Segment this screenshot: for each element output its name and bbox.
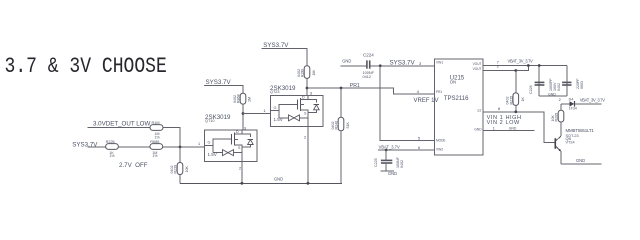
resistor R226 <box>106 140 119 158</box>
svg-text:3: 3 <box>419 62 421 66</box>
svg-text:VIN2: VIN2 <box>436 147 443 151</box>
svg-text:3.7 & 3V CHOOSE: 3.7 & 3V CHOOSE <box>5 55 167 80</box>
capacitor bank box <box>539 66 567 97</box>
svg-text:1M: 1M <box>312 71 316 76</box>
transistor Q VT24 MMBT5551LT1 <box>555 128 594 164</box>
svg-text:6: 6 <box>418 146 420 150</box>
junction drain node <box>242 112 245 115</box>
svg-text:0412: 0412 <box>363 75 371 79</box>
wire block2 source to gnd <box>307 127 309 184</box>
svg-text:MODE: MODE <box>436 139 446 143</box>
svg-text:R239: R239 <box>174 165 178 174</box>
svg-text:4: 4 <box>417 90 419 94</box>
svg-text:VBAT_3V_3.7V: VBAT_3V_3.7V <box>580 98 606 103</box>
transistor Q 2SK3019 QT23 (block2) <box>271 95 324 126</box>
svg-text:2: 2 <box>239 166 241 170</box>
svg-text:GND: GND <box>274 176 283 181</box>
ground (C225) <box>381 170 395 172</box>
svg-text:8: 8 <box>498 107 500 111</box>
svg-text:1%: 1% <box>152 154 158 158</box>
wire GND pin <box>483 130 535 132</box>
resistor R239 pulldown <box>170 147 189 183</box>
svg-text:VBAT_3.7V: VBAT_3.7V <box>379 145 400 150</box>
IC U215 TPS2116 <box>435 59 483 155</box>
svg-text:2: 2 <box>497 64 499 68</box>
junction <box>527 64 530 67</box>
wire <box>87 146 105 148</box>
svg-text:C226: C226 <box>529 85 533 94</box>
svg-text:1F34: 1F34 <box>569 107 577 111</box>
svg-text:1: 1 <box>493 126 495 130</box>
svg-text:GND: GND <box>509 126 517 130</box>
svg-text:0603: 0603 <box>580 81 584 89</box>
svg-text:R2M: R2M <box>301 69 305 77</box>
wire VOUT pin2 <box>483 66 528 71</box>
svg-text:1%: 1% <box>109 154 115 158</box>
svg-text:0402: 0402 <box>557 83 561 91</box>
wire ST net <box>483 112 555 143</box>
wire emitter to gnd <box>561 163 602 165</box>
svg-text:C224: C224 <box>363 52 374 57</box>
svg-text:0402: 0402 <box>400 160 404 168</box>
svg-text:D: D <box>236 130 239 134</box>
resistor R215 (vertical) <box>506 71 525 112</box>
svg-text:2.7V OFF: 2.7V OFF <box>119 162 148 169</box>
wire <box>561 103 570 105</box>
svg-text:2: 2 <box>304 136 306 140</box>
capacitor C226 <box>529 82 544 94</box>
junction R246 tap <box>340 87 343 90</box>
svg-text:1%: 1% <box>155 135 161 139</box>
wire <box>163 146 205 148</box>
wire SYS3.7V to VIN1 <box>370 65 435 67</box>
wire <box>306 78 308 95</box>
svg-text:R215: R215 <box>509 96 513 105</box>
wire <box>575 103 602 105</box>
wire VIN2 <box>378 149 435 151</box>
svg-text:R686: R686 <box>150 140 159 144</box>
svg-text:51K: 51K <box>346 122 350 129</box>
svg-text:0402: 0402 <box>170 166 174 174</box>
svg-text:R246: R246 <box>335 121 339 130</box>
svg-text:GND: GND <box>474 128 482 132</box>
svg-text:VOUT: VOUT <box>473 67 482 71</box>
capacitor C224 <box>363 52 375 79</box>
diode D4 1F34 <box>569 98 577 111</box>
internal gate network <box>205 139 232 145</box>
wire <box>163 127 180 147</box>
wire to block2 gate <box>243 113 270 115</box>
resistor R868 (vertical) <box>233 93 252 104</box>
svg-text:PR1: PR1 <box>350 83 360 89</box>
resistor R2M pullup (vertical) <box>297 66 316 79</box>
svg-text:ON: ON <box>450 79 456 84</box>
resistor R1M <box>150 121 163 139</box>
svg-text:VIN 2 LOW: VIN 2 LOW <box>487 120 520 126</box>
svg-text:1: 1 <box>264 109 266 113</box>
resistor R686 <box>150 140 163 158</box>
svg-text:0402: 0402 <box>331 122 335 130</box>
mosfet channel bar <box>233 133 235 146</box>
capacitor C229 <box>549 78 584 91</box>
junction <box>538 64 541 67</box>
svg-text:C225: C225 <box>374 158 378 167</box>
drain stub <box>234 130 242 134</box>
svg-text:R205: R205 <box>555 113 559 122</box>
capacitor C225 <box>374 150 404 171</box>
svg-text:0402: 0402 <box>506 97 510 105</box>
svg-text:ST: ST <box>477 109 481 113</box>
svg-text:10K: 10K <box>185 166 189 173</box>
svg-text:D4: D4 <box>569 98 574 102</box>
svg-text:2: 2 <box>559 98 561 102</box>
svg-text:D: D <box>302 96 305 100</box>
svg-text:3: 3 <box>244 126 246 130</box>
svg-text:3: 3 <box>310 92 312 96</box>
ground rail <box>180 182 342 184</box>
svg-text:1: 1 <box>198 142 200 146</box>
resistor R205 (vertical) <box>551 104 564 136</box>
wire <box>242 104 244 130</box>
svg-text:1K: 1K <box>521 97 525 102</box>
junction PR1 node <box>306 87 309 90</box>
svg-text:10K: 10K <box>551 115 555 122</box>
svg-text:VOUT: VOUT <box>473 62 482 66</box>
wire VOUT pin7 <box>483 65 567 67</box>
svg-text:3.0VDET_OUT LOW: 3.0VDET_OUT LOW <box>93 121 150 128</box>
svg-text:1M: 1M <box>248 97 252 102</box>
svg-text:GND: GND <box>548 92 556 96</box>
mosfet gate bar <box>231 134 233 144</box>
svg-text:G: G <box>274 106 277 110</box>
wire <box>118 146 149 148</box>
svg-text:QT23: QT23 <box>270 90 280 94</box>
wire <box>204 86 243 94</box>
junction R215 tap <box>514 69 517 72</box>
svg-text:R226: R226 <box>106 140 115 144</box>
body diode <box>242 134 251 137</box>
transistor Q 2SK3019 QT10 (block1) <box>205 114 258 162</box>
svg-text:R1M: R1M <box>152 121 160 125</box>
svg-text:VIN1: VIN1 <box>436 61 443 65</box>
svg-text:R868: R868 <box>237 94 241 103</box>
svg-text:VT24: VT24 <box>566 141 575 145</box>
svg-text:SYS3.7V: SYS3.7V <box>390 59 416 66</box>
svg-text:PR1: PR1 <box>436 90 442 94</box>
svg-text:QT10: QT10 <box>205 119 215 123</box>
svg-text:GND: GND <box>388 171 397 176</box>
junction C225 tap <box>385 149 388 152</box>
junction gate node <box>179 146 182 149</box>
svg-text:TPS2116: TPS2116 <box>444 96 469 102</box>
svg-text:0402: 0402 <box>297 69 301 77</box>
svg-text:5: 5 <box>418 137 420 141</box>
resistor R246 (vertical) <box>331 88 350 183</box>
wire <box>262 48 307 65</box>
wire <box>340 65 366 67</box>
wire MODE <box>380 66 434 141</box>
wire block1 source to gnd <box>241 161 243 183</box>
svg-text:GND: GND <box>342 59 351 64</box>
source stub <box>234 145 242 162</box>
svg-text:VBAT_3V_3.7V: VBAT_3V_3.7V <box>508 59 534 64</box>
wire PR1 net <box>307 88 435 94</box>
wire <box>87 126 150 128</box>
junction <box>514 110 517 113</box>
svg-text:G: G <box>208 141 211 145</box>
svg-text:0402: 0402 <box>233 95 237 103</box>
svg-text:GND: GND <box>576 158 585 163</box>
junction MODE tap <box>379 64 382 67</box>
svg-text:MMBT5551LT1: MMBT5551LT1 <box>566 128 595 133</box>
